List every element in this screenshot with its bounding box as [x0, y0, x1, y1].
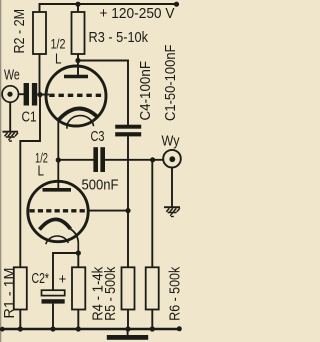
svg-text:R6 - 500k: R6 - 500k [166, 266, 182, 320]
junction R6 top / output [150, 157, 155, 162]
wire grid V1 to R1 [20, 96, 40, 268]
svg-text:R1 - 1M: R1 - 1M [1, 268, 18, 319]
svg-text:C3: C3 [91, 129, 105, 145]
svg-text:1/2: 1/2 [51, 36, 66, 52]
svg-text:R2 - 2M: R2 - 2M [11, 9, 28, 54]
ground input [3, 132, 19, 141]
V2 anode bar [43, 188, 72, 192]
V1 heater arc [67, 116, 94, 129]
V1 anode bar [64, 75, 88, 79]
svg-text:C2*: C2* [32, 271, 50, 287]
tube V2 envelope [28, 181, 88, 241]
svg-text:L: L [38, 164, 45, 180]
junction grid V2 / C4 / R5 [125, 208, 130, 213]
svg-text:+: + [59, 272, 67, 288]
capacitor C2 electrolytic [42, 290, 65, 329]
svg-text:L: L [55, 52, 62, 68]
wire C1 to grid V1 [37, 94, 49, 96]
capacitor C4 [115, 125, 141, 137]
junction R1 bus [18, 326, 23, 331]
bus end dots [0, 327, 5, 332]
V2 grid dashed [30, 209, 89, 212]
resistor R4 [72, 267, 85, 329]
wire C3 to output [105, 159, 164, 161]
wire supply rail +120-250V [39, 3, 177, 5]
svg-text:+ 120-250 V: + 120-250 V [100, 6, 175, 22]
V1 grid dashed [49, 94, 104, 97]
resistor R3 [72, 3, 85, 60]
resistor R5 [122, 267, 135, 329]
junction midpoint (V1 cathode / V2 anode) [56, 157, 61, 162]
V2 heater arc [46, 236, 69, 244]
wire V2 cathode lead [71, 229, 79, 253]
svg-text:R5 - 500k: R5 - 500k [102, 266, 119, 320]
junction R5 bus [125, 326, 130, 331]
svg-text:C4-100nF: C4-100nF [137, 61, 154, 121]
wire cathode V2 to C2 [53, 253, 78, 290]
junction R3 top / supply [75, 2, 80, 7]
wire We to C1 [19, 93, 25, 95]
capacitor C1 [24, 83, 38, 106]
junction R4 bus [76, 326, 81, 331]
wire midpoint to C3 [58, 159, 94, 161]
V1 cathode arc [59, 109, 98, 120]
svg-text:C1-50-100nF: C1-50-100nF [162, 45, 179, 122]
wire Wy to ground [171, 168, 173, 207]
chassis ground bar [127, 329, 129, 335]
junction C2 bus [50, 326, 55, 331]
junction cathode V2 [76, 250, 81, 255]
wire grid V2 to junction [88, 210, 128, 212]
capacitor C3 [93, 147, 105, 172]
junction grid V1 [37, 92, 42, 97]
input terminal We [2, 86, 18, 102]
svg-text:R3 - 5-10k: R3 - 5-10k [89, 30, 149, 46]
node supply end dot [174, 2, 179, 7]
output terminal Wy [163, 150, 181, 168]
V2 cathode arc [40, 219, 71, 229]
svg-text:500nF: 500nF [82, 177, 119, 193]
junction anode V1 / R3 bottom [75, 58, 80, 63]
svg-text:Wy: Wy [162, 133, 181, 149]
junction R6 bus [150, 326, 155, 331]
ground output [164, 207, 180, 216]
tube V1 envelope [46, 66, 106, 126]
wire V1 cathode to midpoint [57, 118, 59, 188]
wire C4 bottom to grid V2 / R5 [127, 136, 129, 267]
ground bus wire [1, 328, 181, 330]
resistor R6 [146, 160, 159, 329]
svg-text:C1: C1 [22, 110, 37, 126]
wire We terminal to ground [9, 102, 11, 131]
svg-text:We: We [4, 67, 20, 83]
wire anode V1 to C4 top [78, 61, 128, 126]
resistor R1 [14, 267, 27, 329]
resistor R2 [33, 3, 46, 95]
wire cathode V2 to R4 [77, 253, 79, 268]
V1 anode lead [77, 59, 79, 76]
